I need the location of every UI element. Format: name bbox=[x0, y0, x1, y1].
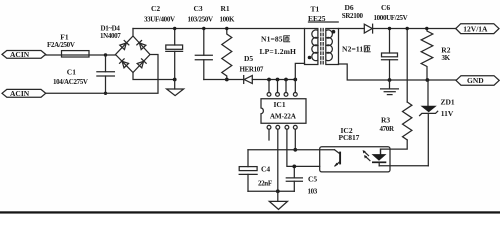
capacitor C6 (1000UF/25V) bbox=[374, 3, 408, 80]
wire bridge + output riser bbox=[132, 29, 134, 37]
wire AC line bottom bbox=[46, 55, 158, 94]
ground (secondary earth) bbox=[381, 80, 399, 95]
wire IC1 top pin stubs bbox=[269, 80, 295, 93]
node junction R1 top bbox=[225, 27, 228, 30]
transformer T1 labels bbox=[308, 5, 338, 24]
svg-text:1000UF/25V: 1000UF/25V bbox=[374, 14, 408, 22]
node junction R2/ZD1 on gnd rail bbox=[426, 78, 430, 82]
wire IC1 pin2 to ground bbox=[277, 129, 279, 191]
IC1 top pin circles bbox=[267, 93, 297, 97]
svg-text:R2: R2 bbox=[441, 45, 450, 54]
node junction C3 top bbox=[202, 27, 205, 30]
svg-text:LP=1.2mH: LP=1.2mH bbox=[260, 47, 297, 56]
node junction cold ground bbox=[276, 189, 280, 193]
wire D5 anode to drain node bbox=[252, 79, 295, 81]
resistor R1 bbox=[220, 4, 235, 79]
node junction C5 top bbox=[292, 165, 296, 169]
capacitor C1 bbox=[53, 55, 114, 93]
svg-text:N1=85匝: N1=85匝 bbox=[261, 35, 291, 44]
svg-text:AM-22A: AM-22A bbox=[270, 112, 297, 120]
node junction C2 top bbox=[173, 27, 176, 30]
photo bottom edge bar bbox=[0, 211, 500, 213]
capacitor C5 (103) bbox=[286, 166, 318, 195]
node junction C6 top bbox=[388, 27, 391, 30]
svg-text:22nF: 22nF bbox=[258, 180, 272, 188]
svg-text:100K: 100K bbox=[220, 15, 235, 23]
svg-text:C2: C2 bbox=[151, 4, 160, 13]
connector ACIN (line) bbox=[2, 50, 46, 59]
wire IC1 pin4 to opto collector bbox=[294, 129, 296, 150]
svg-text:3K: 3K bbox=[442, 54, 451, 62]
diode D6 SR2100 bbox=[342, 3, 373, 33]
svg-text:470R: 470R bbox=[380, 125, 395, 133]
node junction C1 top bbox=[104, 53, 107, 56]
svg-text:1N4007: 1N4007 bbox=[100, 32, 121, 40]
ground (primary, under C2) bbox=[167, 80, 184, 96]
svg-text:C4: C4 bbox=[261, 165, 270, 174]
bridge rectifier D1-D4 diamond bbox=[116, 36, 151, 73]
svg-text:104/AC275V: 104/AC275V bbox=[53, 78, 88, 86]
svg-text:C5: C5 bbox=[308, 174, 317, 183]
svg-text:103/250V: 103/250V bbox=[188, 15, 213, 23]
svg-text:C3: C3 bbox=[194, 4, 203, 13]
wire secondary bottom elbow bbox=[339, 64, 457, 80]
connector 12V/1A bbox=[456, 24, 499, 34]
diode D2 (top-right edge) bbox=[137, 41, 146, 50]
connector ACIN (neutral) bbox=[2, 89, 46, 98]
wire 12V rail bbox=[373, 28, 456, 30]
svg-text:C6: C6 bbox=[381, 3, 390, 12]
opto LED (IC2 right) bbox=[372, 149, 387, 166]
node junction C6 bottom / sec ground bbox=[388, 78, 392, 82]
wire R3 to opto LED anode bbox=[381, 140, 408, 154]
wire secondary top to D6 bbox=[339, 28, 365, 30]
svg-text:ACIN: ACIN bbox=[10, 89, 30, 98]
node junction drain pin b bbox=[276, 78, 280, 82]
svg-text:IC1: IC1 bbox=[274, 100, 286, 109]
connector GND bbox=[456, 76, 499, 86]
transformer core bbox=[321, 29, 323, 66]
capacitor C2 (electrolytic) bbox=[144, 4, 183, 79]
svg-text:GND: GND bbox=[467, 76, 484, 85]
node junction C1 bottom bbox=[104, 92, 107, 95]
transformer T1 secondary winding bbox=[327, 30, 333, 61]
diode D3 (bottom-left edge) bbox=[120, 59, 129, 68]
IC1 bottom pin circles bbox=[267, 125, 297, 129]
node junction drain pin d bbox=[293, 78, 297, 82]
wire riser to transformer primary bottom bbox=[295, 63, 304, 79]
diode D4 (bottom-right edge) bbox=[137, 59, 146, 68]
transformer T1 primary winding bbox=[312, 30, 318, 61]
wire LED cathode to ZD1 bbox=[379, 165, 428, 167]
svg-text:PC817: PC817 bbox=[339, 133, 360, 142]
svg-text:D6: D6 bbox=[345, 3, 354, 12]
fuse F1 bbox=[47, 33, 89, 58]
wire snubber node bbox=[204, 79, 244, 81]
node junction pin4/line1 bbox=[293, 148, 297, 152]
node junction R2 top bbox=[425, 27, 428, 30]
node junction R3 top bbox=[406, 27, 409, 30]
wire feedback line1 bbox=[248, 149, 335, 151]
opto light arrows bbox=[363, 150, 370, 161]
svg-text:F2A/250V: F2A/250V bbox=[47, 41, 75, 49]
op-amp IC1 AM-22A body bbox=[261, 99, 306, 124]
resistor R3 470R bbox=[380, 29, 412, 140]
node junction primary minus bbox=[173, 78, 177, 82]
svg-text:103: 103 bbox=[308, 188, 318, 196]
svg-text:D5: D5 bbox=[244, 54, 253, 63]
wire bridge - output elbow bbox=[133, 73, 175, 80]
capacitor C3 bbox=[188, 4, 213, 79]
wire IC1 pin3 to opto emitter bbox=[287, 129, 320, 166]
zener ZD1 11V bbox=[420, 80, 455, 166]
svg-text:ZD1: ZD1 bbox=[441, 98, 455, 107]
svg-text:T1: T1 bbox=[311, 5, 320, 14]
bridge D1-D4 label bbox=[100, 25, 121, 40]
wire cold ground bus bbox=[248, 190, 294, 192]
svg-text:ACIN: ACIN bbox=[10, 50, 30, 59]
phototransistor (IC2 left) bbox=[334, 150, 340, 167]
svg-text:R3: R3 bbox=[381, 116, 390, 125]
svg-text:HER107: HER107 bbox=[240, 65, 264, 73]
wire DC+ rail primary bbox=[133, 28, 305, 30]
node polarity dot primary bbox=[308, 56, 312, 60]
svg-text:C1: C1 bbox=[67, 68, 76, 77]
ground (cold side, under IC1) bbox=[269, 191, 287, 209]
wire IC1 pin1 stub bbox=[268, 129, 270, 140]
node polarity dot secondary bbox=[332, 30, 336, 34]
svg-text:N2=11匝: N2=11匝 bbox=[342, 45, 371, 54]
node junction drain pin a bbox=[267, 78, 271, 82]
svg-text:SR2100: SR2100 bbox=[342, 12, 364, 20]
capacitor C4 (22nF) bbox=[239, 150, 272, 192]
wire AC line top bbox=[46, 54, 116, 56]
svg-text:R1: R1 bbox=[221, 4, 230, 13]
svg-text:12V/1A: 12V/1A bbox=[463, 24, 488, 33]
node junction drain pin c bbox=[284, 78, 288, 82]
node junction R1 bottom / snubber bbox=[225, 78, 229, 82]
svg-text:11V: 11V bbox=[441, 109, 454, 118]
svg-text:33UF/400V: 33UF/400V bbox=[144, 15, 175, 23]
diode D1 (top-left edge) bbox=[120, 41, 129, 50]
resistor R2 3K bbox=[421, 29, 451, 81]
optocoupler IC2 PC817 box bbox=[320, 126, 390, 172]
transformer T1 primary box bbox=[305, 29, 318, 65]
diode D5 HER107 bbox=[240, 54, 264, 84]
svg-text:F1: F1 bbox=[60, 33, 69, 42]
transformer T1 secondary box bbox=[326, 29, 339, 65]
